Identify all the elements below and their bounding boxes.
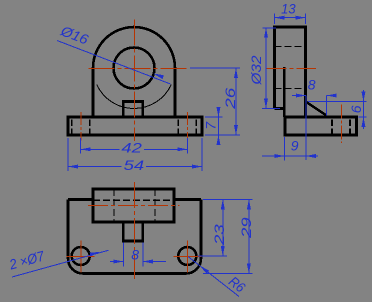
front view lower thin arc of boss — [97, 85, 172, 109]
side view bore hidden line upper — [275, 46, 306, 48]
svg-text:R6: R6 — [226, 273, 249, 296]
top view bore hidden lines — [113, 189, 115, 222]
dimension 2×Ø7 arrowhead — [90, 252, 100, 257]
svg-text:54: 54 — [124, 157, 145, 173]
dimension 23 line — [222, 199, 224, 256]
dimension 6 extension lines — [308, 101, 367, 103]
dimension Ø32 extension lines — [263, 27, 277, 29]
top view boss axis centerline — [88, 205, 180, 207]
svg-text:42: 42 — [121, 140, 142, 156]
svg-text:9: 9 — [291, 138, 299, 154]
dimension 13 extension lines — [274, 14, 276, 25]
dimension 6 arrows — [362, 92, 366, 102]
dimension 42 arrows — [81, 147, 91, 151]
dimension 9 line — [262, 155, 318, 157]
dimension 9 arrows — [274, 154, 284, 158]
svg-text:8: 8 — [308, 77, 316, 93]
dimension 9 extension lines — [283, 137, 285, 161]
dimension 29 line — [248, 199, 250, 273]
svg-text:Ø32: Ø32 — [248, 55, 264, 85]
svg-text:Ø16: Ø16 — [58, 22, 91, 47]
side view bore hidden line lower — [275, 88, 306, 90]
dimension 54 arrows — [68, 165, 78, 169]
front view right hole centerline — [187, 112, 189, 141]
side view boss rectangle outline — [275, 27, 306, 117]
dimension Ø32 line — [265, 28, 267, 109]
svg-text:7: 7 — [202, 121, 218, 130]
top view plate outline — [68, 200, 201, 274]
dimension 7 extension lines — [205, 116, 223, 118]
svg-text:26: 26 — [222, 87, 238, 110]
dimension Ø16 arrowhead — [153, 73, 164, 79]
top view slot — [123, 222, 143, 241]
dimension 7 arrows — [217, 107, 221, 117]
top view left hole — [72, 247, 90, 265]
svg-text:6: 6 — [348, 105, 364, 113]
front view vertical centerline — [134, 20, 136, 142]
top view right hole crosshair — [173, 256, 201, 258]
front view outer boss arc (top half, R41) — [93, 27, 175, 68]
front view right body side line — [174, 68, 177, 117]
top view right hole — [178, 247, 196, 265]
dimension 7 line — [218, 107, 220, 145]
dimension 23 arrows — [221, 199, 225, 209]
front view base plate — [68, 117, 202, 135]
side view base hole hidden edges — [331, 120, 333, 135]
front view hole edge hidden lines at x=187.3 — [177, 120, 179, 135]
svg-text:13: 13 — [281, 1, 296, 17]
front view left body side line — [92, 68, 95, 117]
front view hole edge hidden lines at x=80.7 — [71, 120, 73, 135]
top view plate top edge right segment — [174, 198, 201, 201]
front view slot — [123, 102, 143, 118]
svg-text:29: 29 — [238, 217, 254, 239]
dimension 2×Ø7 leader line — [12, 250, 109, 277]
dimension R6 leader line — [188, 257, 239, 297]
dimension 54 line — [68, 166, 122, 168]
dimension 42 line — [81, 148, 120, 150]
dimension R6 arrowhead — [200, 266, 210, 274]
dimension Ø32 arrows — [264, 28, 268, 38]
side view boss bottom step — [275, 107, 285, 110]
svg-text:23: 23 — [211, 224, 227, 246]
front view bore circle Ø16 — [114, 48, 155, 89]
front view left hole centerline — [80, 112, 82, 141]
dimension 26 line — [235, 68, 237, 135]
dimension 6 line — [363, 90, 365, 129]
dimension 8 (top) extension lines — [122, 243, 124, 267]
dimension 54 extension lines — [67, 138, 69, 171]
top view left hole crosshair — [67, 256, 95, 258]
top view plate top edge left segment — [68, 198, 93, 201]
dimension 13 line — [275, 17, 306, 19]
dimension 8 (side) arrows — [296, 94, 306, 98]
top view plate top edge hidden under boss — [93, 199, 174, 201]
dimension 42 extension lines — [80, 138, 82, 154]
front view horizontal centerline — [89, 68, 188, 70]
dimension 8 (top) line — [110, 261, 123, 263]
dimension 29 arrows — [247, 199, 251, 209]
dimension 8 (side) line — [292, 95, 306, 97]
side view hole centerline — [341, 105, 343, 144]
side view base plate — [284, 117, 356, 135]
top view boss rectangle — [93, 189, 174, 222]
side view horizontal centerline — [267, 68, 317, 70]
dimension 29 extension line bottom — [203, 273, 253, 275]
top view vertical centerline — [134, 182, 136, 279]
dimension 8 (top) arrows — [113, 260, 123, 264]
dimension 8 (side) extension lines — [305, 96, 307, 161]
dimension 26 arrows — [234, 68, 238, 78]
dimension 23 extension lines — [203, 198, 253, 200]
side view web back edge — [283, 67, 286, 117]
dimension 26 extension lines — [190, 67, 240, 69]
dimension Ø16 leader line — [57, 41, 171, 85]
dimension 13 arrows — [275, 16, 285, 20]
side view rib diagonal — [306, 102, 327, 116]
svg-text:8: 8 — [131, 246, 139, 262]
